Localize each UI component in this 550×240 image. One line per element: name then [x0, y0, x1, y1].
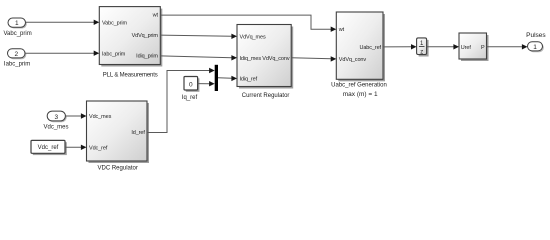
svg-text:Uref: Uref	[461, 45, 472, 51]
svg-text:Vdc_ref: Vdc_ref	[89, 146, 108, 152]
svg-text:Iabc_prim: Iabc_prim	[102, 51, 126, 57]
svg-text:VdVq_conv: VdVq_conv	[262, 56, 290, 62]
svg-text:Vabc_prim: Vabc_prim	[3, 31, 31, 37]
svg-text:VDC Regulator: VDC Regulator	[98, 166, 138, 172]
svg-text:Vdc_mes: Vdc_mes	[43, 125, 68, 131]
svg-text:Idiq_mes: Idiq_mes	[240, 56, 262, 62]
svg-text:1: 1	[533, 44, 537, 51]
svg-text:Iq_ref: Iq_ref	[182, 95, 198, 101]
svg-text:wt: wt	[152, 13, 159, 19]
svg-text:Current Regulator: Current Regulator	[242, 93, 290, 99]
svg-text:Uabc_ref Generation: Uabc_ref Generation	[331, 83, 387, 89]
svg-text:3: 3	[54, 114, 58, 121]
svg-text:Vdc_ref: Vdc_ref	[38, 145, 59, 151]
svg-text:Pulses: Pulses	[526, 32, 546, 39]
svg-text:VdVq_conv: VdVq_conv	[339, 57, 367, 63]
svg-text:max (m) = 1: max (m) = 1	[343, 91, 378, 98]
svg-text:VdVq_prim: VdVq_prim	[132, 33, 159, 39]
svg-text:2: 2	[14, 51, 18, 58]
svg-text:P: P	[481, 45, 485, 51]
svg-text:Idiq_ref: Idiq_ref	[240, 77, 258, 83]
svg-text:VdVq_mes: VdVq_mes	[240, 35, 266, 41]
svg-text:PLL & Measurements: PLL & Measurements	[103, 72, 158, 78]
svg-text:Idiq_prim: Idiq_prim	[136, 54, 158, 60]
svg-text:Iabc_prim: Iabc_prim	[4, 61, 30, 67]
svg-text:wt: wt	[338, 27, 345, 33]
svg-text:z: z	[420, 49, 423, 55]
svg-text:Vdc_mes: Vdc_mes	[89, 114, 112, 120]
svg-text:Id_ref: Id_ref	[131, 130, 145, 136]
svg-text:0: 0	[189, 81, 193, 88]
svg-text:Uabc_ref: Uabc_ref	[359, 45, 381, 51]
svg-text:1: 1	[15, 20, 19, 27]
svg-text:Vabc_prim: Vabc_prim	[102, 21, 127, 27]
